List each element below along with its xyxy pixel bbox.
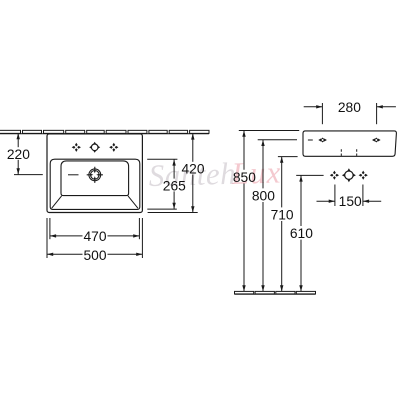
svg-text:800: 800 xyxy=(252,189,275,204)
wall surface line xyxy=(0,133,209,135)
dimension 610 xyxy=(296,175,323,291)
bowl inner bottom xyxy=(61,161,129,196)
svg-text:500: 500 xyxy=(83,248,106,263)
tap hole right xyxy=(109,143,118,152)
dimension 500 xyxy=(47,218,142,258)
svg-text:280: 280 xyxy=(338,100,361,115)
hidden tap hole dashes xyxy=(341,149,356,156)
drill hole center xyxy=(342,168,356,182)
dimension 265 xyxy=(147,159,177,209)
dimension 710 xyxy=(278,157,298,292)
dimension 420 xyxy=(148,134,198,213)
floor line xyxy=(235,291,316,294)
watermark SantehLux xyxy=(148,155,281,193)
bowl outer rim xyxy=(50,159,140,209)
fixing hole left xyxy=(318,138,327,143)
wall line xyxy=(0,130,209,133)
dimension 800 xyxy=(258,140,297,292)
svg-text:220: 220 xyxy=(7,147,30,162)
basin profile front view xyxy=(303,131,396,156)
bowl slope line left xyxy=(52,196,62,208)
svg-text:420: 420 xyxy=(181,162,204,177)
svg-text:470: 470 xyxy=(83,229,106,244)
profile dash mark xyxy=(308,139,313,141)
drill hole right xyxy=(359,171,368,180)
dimension 280 xyxy=(304,103,396,124)
floor surface line xyxy=(235,293,316,295)
dimension 850 xyxy=(239,131,299,292)
tap hole center xyxy=(89,142,100,153)
dimension 220 xyxy=(14,133,79,175)
svg-text:150: 150 xyxy=(339,194,362,209)
bowl slope line right xyxy=(128,196,138,208)
dimension 150 xyxy=(317,185,382,207)
drill hole left xyxy=(330,171,339,180)
svg-text:850: 850 xyxy=(233,170,256,185)
svg-text:265: 265 xyxy=(163,178,186,193)
svg-text:610: 610 xyxy=(290,226,313,241)
fixing hole right xyxy=(372,138,381,143)
drain xyxy=(87,167,103,183)
basin outline plan view xyxy=(47,134,142,213)
svg-text:710: 710 xyxy=(271,208,294,223)
tap hole left xyxy=(72,143,81,152)
dimension 470 xyxy=(50,218,139,239)
